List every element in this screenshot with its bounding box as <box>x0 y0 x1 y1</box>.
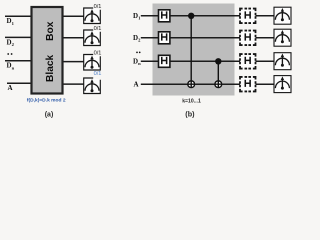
svg-text:0/1: 0/1 <box>94 50 102 56</box>
svg-text:A: A <box>134 81 139 89</box>
svg-text:0/1: 0/1 <box>94 26 102 32</box>
svg-text:(b): (b) <box>185 109 195 118</box>
svg-text:A: A <box>8 84 13 92</box>
svg-text:f(D,k)=D.k mod 2: f(D,k)=D.k mod 2 <box>27 98 66 104</box>
svg-text:0/1: 0/1 <box>94 71 102 77</box>
svg-text:Box: Box <box>45 21 56 41</box>
svg-text:k=10...1: k=10...1 <box>182 98 201 104</box>
svg-text:(a): (a) <box>45 112 54 119</box>
svg-text:0/1: 0/1 <box>94 4 102 10</box>
svg-text:Black: Black <box>45 54 56 82</box>
